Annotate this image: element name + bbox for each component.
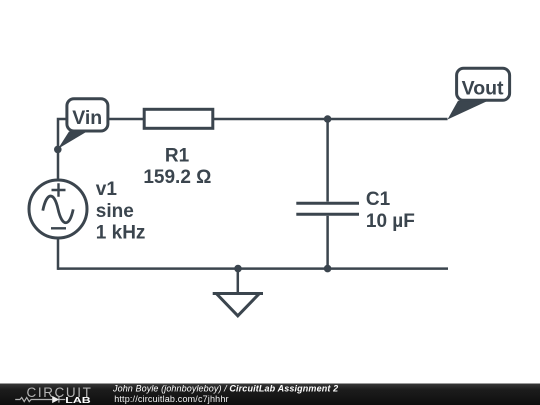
svg-text:159.2 Ω: 159.2 Ω — [143, 167, 211, 188]
svg-text:C1: C1 — [366, 189, 391, 210]
svg-text:http://circuitlab.com/c7jhhhr: http://circuitlab.com/c7jhhhr — [114, 394, 228, 404]
svg-text:1 kHz: 1 kHz — [96, 222, 146, 243]
svg-text:R1: R1 — [165, 146, 190, 167]
svg-text:sine: sine — [96, 201, 134, 222]
svg-text:John Boyle (johnboyleboy) / Ci: John Boyle (johnboyleboy) / CircuitLab A… — [112, 384, 338, 394]
svg-text:10 µF: 10 µF — [366, 211, 415, 232]
svg-text:Vout: Vout — [462, 77, 504, 99]
svg-text:Vin: Vin — [72, 107, 102, 129]
svg-text:v1: v1 — [96, 179, 118, 200]
svg-text:LAB: LAB — [65, 396, 91, 405]
